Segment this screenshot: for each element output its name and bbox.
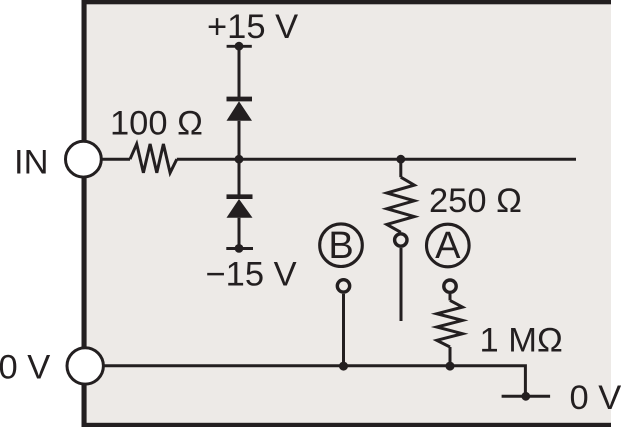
svg-text:A: A [435,225,461,267]
socket circle B [337,280,349,292]
wire: main line to diode D2 [238,159,241,197]
resistor R1 100 ohm (zigzag) [130,144,177,173]
socket circle below R2 [395,234,407,246]
wire: IN terminal to resistor R1 [101,158,130,161]
svg-text:+15 V: +15 V [207,8,298,46]
resistor R2 250 ohm (vertical zigzag) [387,177,415,232]
junction dot on -15 V rail [235,244,244,253]
junction dot: clamp chain on main line [235,155,244,164]
wire: diode D1 to main line [238,121,241,159]
-15 V rail bar [226,247,253,250]
svg-text:B: B [328,225,353,267]
wire: main line down to resistor R2 [399,159,402,177]
junction dot: B branch on 0 V bus [339,362,348,371]
node A label (circled A) [427,224,470,267]
wire: main horizontal input line [177,158,576,161]
svg-text:IN: IN [14,143,49,181]
+15 V rail bar [227,45,252,48]
wire: +15 V rail to diode D1 [238,46,241,97]
terminal 0 V (open circle) [67,348,103,384]
diode D1 (cathode bar + triangle pointing up) [227,99,253,121]
node B label (circled B) [320,224,363,267]
svg-text:100 Ω: 100 Ω [110,105,203,143]
socket circle A [444,280,456,292]
wire: resistor R3 to 0 V bus [449,347,452,366]
wire: hanging lead below socket [400,248,403,321]
svg-text:1 MΩ: 1 MΩ [480,322,563,360]
svg-text:250 Ω: 250 Ω [429,182,522,220]
diode D2 (cathode bar + triangle pointing up) [227,197,253,218]
junction dot: main line to 250 ohm branch [396,155,405,164]
junction dot on 0 V reference rail [521,392,530,401]
junction dot: A branch on 0 V bus [446,362,455,371]
wire: socket A to resistor R3 [449,294,452,300]
terminal IN (open circle) [66,141,102,177]
svg-text:0 V: 0 V [570,379,621,417]
junction dot on +15 V rail [235,42,244,51]
svg-text:0 V: 0 V [0,349,50,387]
svg-text:−15 V: −15 V [206,255,297,293]
wire: 0 V bus from terminal to corner and down [102,366,525,397]
0 V reference rail bar [502,395,550,398]
resistor R3 1 Mohm (vertical zigzag) [437,300,463,347]
wire: diode D2 to -15 V rail [238,218,241,249]
wire: socket B to 0 V bus [342,294,345,366]
